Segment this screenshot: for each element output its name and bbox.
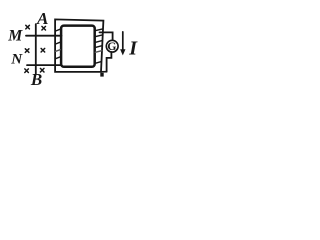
AC generator circle <box>106 40 118 52</box>
svg-text:G: G <box>107 39 116 53</box>
terminal cross P1 left <box>26 25 30 29</box>
terminal cross P1 right <box>42 26 46 30</box>
terminal cross P3 left <box>25 69 29 73</box>
wire generator to box bottom <box>107 52 112 72</box>
black box outer shell <box>55 19 103 72</box>
wire N horizontal <box>27 64 62 66</box>
black box inner core <box>61 26 95 67</box>
svg-text:I: I <box>128 38 138 60</box>
wire box to generator top <box>100 32 113 40</box>
svg-text:N: N <box>10 51 23 68</box>
wire bottom rail extension <box>101 71 107 73</box>
hatching left side <box>56 29 61 59</box>
svg-text:A: A <box>36 9 48 28</box>
wire M horizontal <box>26 35 62 37</box>
ink blot bottom right <box>100 73 103 77</box>
terminal cross P2 right <box>41 48 45 52</box>
svg-text:M: M <box>7 27 23 44</box>
wire vertical A-B <box>35 24 37 74</box>
terminal cross P2 left <box>25 49 29 53</box>
current arrow shaft <box>122 32 124 50</box>
terminal cross P3 right <box>40 68 44 72</box>
hatching right side <box>95 29 102 63</box>
current arrow head <box>120 49 125 55</box>
